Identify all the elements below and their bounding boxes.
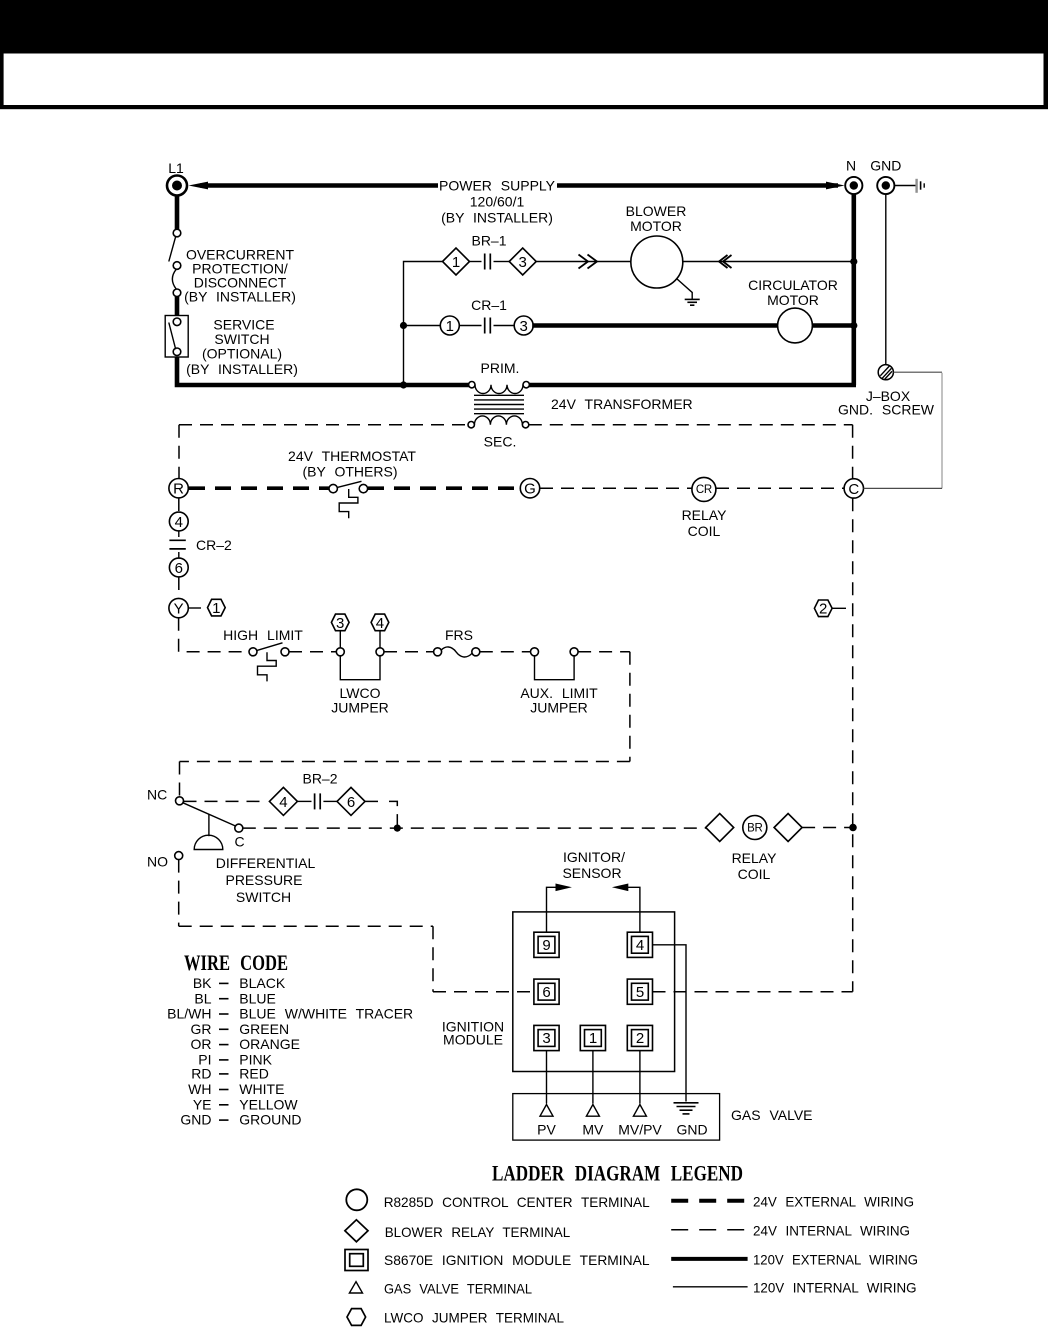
legend R8285D terminal symbol	[346, 1189, 650, 1210]
gas valve terminal GND earth	[674, 1103, 708, 1138]
transformer T1 primary	[469, 360, 530, 394]
svg-text:6: 6	[347, 794, 355, 811]
svg-text:24V TRANSFORMER: 24V TRANSFORMER	[551, 396, 693, 412]
svg-text:GR: GR	[191, 1021, 212, 1037]
LWCO jumper terminal 4	[371, 614, 389, 648]
terminal G	[520, 479, 539, 498]
svg-text:COIL: COIL	[738, 866, 771, 882]
ignition module box	[513, 912, 675, 1072]
svg-text:BLUE: BLUE	[239, 990, 276, 1006]
svg-text:GREEN: GREEN	[239, 1021, 289, 1037]
ignitor/sensor arrows	[547, 849, 640, 932]
wire BR coil to rail	[802, 827, 850, 829]
svg-text:GND. SCREW: GND. SCREW	[838, 402, 935, 418]
svg-text:BR–2: BR–2	[302, 771, 337, 787]
svg-text:6: 6	[175, 560, 183, 577]
svg-text:OR: OR	[191, 1036, 212, 1052]
svg-text:C: C	[234, 834, 244, 850]
svg-text:RELAY: RELAY	[682, 507, 728, 523]
wire N rail	[851, 194, 856, 385]
terminal R	[169, 479, 188, 498]
relay coil BR with terminals	[706, 814, 802, 883]
chassis ground at GND terminal	[894, 179, 924, 193]
svg-text:RED: RED	[239, 1066, 269, 1082]
wire service switch to transformer rung	[177, 357, 469, 385]
svg-text:(OPTIONAL): (OPTIONAL)	[202, 346, 282, 362]
svg-text:BR: BR	[747, 822, 762, 834]
svg-text:2: 2	[636, 1030, 644, 1047]
svg-text:4: 4	[279, 794, 287, 811]
terminal C	[844, 479, 863, 498]
svg-text:C: C	[848, 481, 859, 498]
svg-text:SENSOR: SENSOR	[562, 865, 621, 881]
svg-text:1: 1	[452, 254, 460, 271]
ignition module terminal 6	[534, 979, 559, 1004]
blower motor ground	[677, 279, 700, 306]
ignition module terminal 2	[627, 1025, 652, 1050]
terminal Y	[169, 598, 188, 617]
svg-text:AUX. LIMIT: AUX. LIMIT	[520, 685, 598, 701]
wire aux limit return loop to NC	[180, 652, 630, 797]
svg-text:9: 9	[542, 937, 550, 954]
differential pressure switch	[147, 787, 315, 906]
svg-text:IGNITOR/: IGNITOR/	[563, 849, 625, 865]
LWCO jumper terminal 3	[331, 614, 349, 648]
svg-text:3: 3	[542, 1030, 550, 1047]
wire left branch vertical	[404, 262, 443, 386]
svg-text:R: R	[173, 481, 184, 498]
svg-text:G: G	[524, 481, 536, 498]
svg-text:SEC.: SEC.	[484, 434, 517, 450]
legend S8670E terminal symbol	[345, 1250, 650, 1271]
svg-text:4: 4	[175, 514, 183, 531]
svg-text:24V THERMOSTAT: 24V THERMOSTAT	[288, 448, 416, 464]
label overcurrent protection	[184, 247, 296, 305]
svg-text:POWER SUPPLY: POWER SUPPLY	[439, 178, 556, 194]
terminal 4 (R8285D)	[169, 498, 188, 531]
wire G to CR coil	[540, 487, 692, 489]
svg-text:3: 3	[519, 254, 527, 271]
wire BR-1 to blower motor with chevron	[536, 255, 630, 269]
svg-text:BLACK: BLACK	[239, 975, 286, 991]
legend 120V internal wiring	[673, 1279, 917, 1295]
svg-text:GAS VALVE TERMINAL: GAS VALVE TERMINAL	[384, 1281, 532, 1297]
wire 24V secondary rung dashed	[179, 425, 853, 479]
svg-text:FRS: FRS	[445, 627, 473, 643]
svg-text:CIRCULATOR: CIRCULATOR	[748, 277, 838, 293]
svg-text:WH: WH	[188, 1081, 211, 1097]
svg-text:4: 4	[636, 937, 644, 954]
terminal N	[845, 158, 862, 195]
svg-text:BLOWER RELAY TERMINAL: BLOWER RELAY TERMINAL	[385, 1224, 571, 1240]
svg-text:BL/WH: BL/WH	[167, 1006, 211, 1022]
gas valve terminal PV	[537, 1105, 556, 1138]
transformer T1 secondary	[468, 416, 529, 450]
svg-text:MOTOR: MOTOR	[630, 218, 682, 234]
ignition module terminal 5	[627, 979, 652, 1004]
wire LWCO to FRS	[384, 651, 434, 653]
svg-text:COIL: COIL	[688, 523, 721, 539]
wire circulator motor to N rail	[812, 323, 853, 328]
overcurrent protection/disconnect switch	[169, 229, 181, 296]
svg-text:WIRE CODE: WIRE CODE	[184, 950, 288, 975]
wire terminal 2 to MV/PV	[639, 1051, 641, 1104]
legend 24V internal wiring	[671, 1222, 910, 1238]
svg-text:MV/PV: MV/PV	[618, 1122, 662, 1138]
svg-text:120V EXTERNAL WIRING: 120V EXTERNAL WIRING	[753, 1251, 918, 1267]
svg-text:GND: GND	[676, 1122, 707, 1138]
wire thermostat to G 24V external	[368, 486, 520, 490]
svg-text:1: 1	[446, 318, 454, 335]
ignition module terminal 1	[580, 1025, 605, 1050]
wire terminal 4 to gas valve ground	[653, 945, 687, 1102]
junction dots N rail	[850, 258, 857, 265]
svg-text:24V EXTERNAL WIRING: 24V EXTERNAL WIRING	[753, 1193, 914, 1209]
svg-text:S8670E IGNITION MODULE TERMINA: S8670E IGNITION MODULE TERMINAL	[384, 1252, 650, 1268]
svg-text:YELLOW: YELLOW	[239, 1096, 298, 1112]
LWCO jumper terminal 1	[188, 599, 225, 617]
svg-text:RD: RD	[191, 1066, 211, 1082]
svg-text:BLOWER: BLOWER	[626, 203, 687, 219]
svg-text:BL: BL	[194, 990, 211, 1006]
ignition module terminal 4	[627, 932, 652, 957]
blower relay contact BR-2	[269, 771, 365, 816]
wire R to thermostat 24V external	[189, 486, 329, 490]
24V thermostat switch	[288, 448, 416, 518]
svg-text:(BY INSTALLER): (BY INSTALLER)	[441, 210, 553, 226]
svg-text:4: 4	[376, 615, 384, 632]
wire primary rung right	[529, 383, 857, 388]
gas valve terminal MV	[582, 1105, 604, 1138]
svg-text:1: 1	[589, 1030, 597, 1047]
wire terminal 5 to rail	[653, 991, 853, 993]
J-box ground screw	[838, 194, 935, 417]
svg-text:BLUE W/WHITE TRACER: BLUE W/WHITE TRACER	[239, 1006, 413, 1022]
svg-text:GND: GND	[180, 1112, 211, 1128]
wire FRS to aux limit	[480, 651, 531, 653]
wire J-box screw to C terminal	[864, 372, 943, 488]
svg-text:3: 3	[520, 318, 528, 335]
svg-text:LWCO JUMPER TERMINAL: LWCO JUMPER TERMINAL	[384, 1310, 564, 1326]
svg-text:120V INTERNAL WIRING: 120V INTERNAL WIRING	[753, 1279, 917, 1295]
wire L1 drop	[175, 196, 180, 230]
svg-text:HIGH LIMIT: HIGH LIMIT	[223, 627, 303, 643]
svg-text:MOTOR: MOTOR	[767, 292, 819, 308]
header title box	[0, 54, 1048, 110]
legend blower relay terminal symbol	[345, 1220, 571, 1242]
label power supply	[439, 178, 556, 226]
svg-text:WHITE: WHITE	[239, 1081, 284, 1097]
svg-text:PRIM.: PRIM.	[481, 360, 520, 376]
svg-text:BR–1: BR–1	[471, 233, 506, 249]
svg-text:GAS VALVE: GAS VALVE	[731, 1107, 813, 1123]
svg-text:CR: CR	[696, 484, 712, 496]
wire Y down to high limit rung	[179, 618, 245, 652]
wire terminal 3 to PV	[546, 1051, 548, 1104]
circulator motor M2	[748, 277, 838, 343]
wire code table	[167, 975, 413, 1128]
terminal GND	[870, 158, 901, 195]
wire high limit to LWCO	[289, 651, 336, 653]
wire 6 to Y dashed	[178, 577, 180, 598]
svg-text:GND: GND	[870, 158, 901, 174]
aux limit jumper	[520, 648, 598, 716]
svg-text:CR–2: CR–2	[196, 537, 232, 553]
svg-text:N: N	[846, 158, 856, 174]
svg-text:NC: NC	[147, 787, 167, 803]
gas valve box	[513, 1094, 720, 1141]
wire blower motor to N rail with chevron	[683, 255, 854, 268]
svg-text:6: 6	[542, 984, 550, 1001]
svg-text:MODULE: MODULE	[443, 1032, 503, 1048]
wire C rung dashed	[243, 827, 706, 829]
svg-text:RELAY: RELAY	[732, 850, 778, 866]
svg-text:3: 3	[336, 615, 344, 632]
fuse FRS	[434, 627, 480, 657]
svg-text:MV: MV	[582, 1122, 604, 1138]
svg-text:R8285D CONTROL CENTER TERMINAL: R8285D CONTROL CENTER TERMINAL	[384, 1194, 650, 1210]
label ignition module	[442, 1019, 504, 1048]
svg-text:LADDER DIAGRAM LEGEND: LADDER DIAGRAM LEGEND	[492, 1161, 743, 1186]
svg-text:ORANGE: ORANGE	[239, 1036, 300, 1052]
relay contact CR-2	[169, 531, 232, 558]
svg-text:JUMPER: JUMPER	[331, 700, 389, 716]
svg-text:Y: Y	[174, 601, 184, 618]
wire NO loop to ignition module	[179, 860, 534, 992]
LWCO jumper	[331, 648, 389, 716]
hexagon terminal 2	[814, 600, 846, 618]
svg-text:YE: YE	[193, 1096, 212, 1112]
wire BR-2 to C rung	[365, 801, 401, 831]
wire CR-1 to circulator motor	[532, 323, 778, 328]
label service switch	[186, 317, 298, 378]
blower motor M1	[626, 203, 687, 288]
svg-text:PV: PV	[537, 1122, 556, 1138]
svg-text:PRESSURE: PRESSURE	[225, 872, 302, 888]
junction dot left branch top	[400, 322, 407, 329]
wire NC to BR-2	[184, 800, 266, 802]
circulator relay contact CR-1	[404, 297, 534, 335]
junction dot BR rail	[849, 824, 857, 832]
relay coil CR	[682, 477, 728, 539]
legend gas valve terminal symbol	[349, 1281, 532, 1297]
svg-text:(BY OTHERS): (BY OTHERS)	[303, 463, 398, 479]
ignition module terminal 9	[534, 932, 559, 957]
svg-text:2: 2	[819, 601, 827, 618]
svg-text:BK: BK	[193, 975, 212, 991]
svg-text:SWITCH: SWITCH	[236, 889, 291, 905]
wire terminal 1 to MV	[592, 1051, 594, 1104]
svg-text:(BY INSTALLER): (BY INSTALLER)	[184, 289, 296, 305]
svg-text:GROUND: GROUND	[239, 1112, 301, 1128]
svg-text:1: 1	[212, 600, 220, 617]
gas valve terminal MV/PV	[618, 1105, 662, 1138]
high limit switch	[223, 627, 303, 681]
wire C rail dashed down	[852, 498, 854, 992]
terminal 6 (R8285D)	[169, 558, 188, 577]
svg-text:DIFFERENTIAL: DIFFERENTIAL	[216, 855, 316, 871]
header black bar	[0, 0, 1048, 54]
svg-text:LWCO: LWCO	[340, 685, 381, 701]
svg-text:5: 5	[636, 984, 644, 1001]
wire CR coil to C	[716, 487, 844, 489]
svg-text:24V INTERNAL WIRING: 24V INTERNAL WIRING	[753, 1222, 910, 1238]
svg-text:CR–1: CR–1	[471, 297, 507, 313]
svg-text:120/60/1: 120/60/1	[470, 194, 525, 210]
service switch	[165, 316, 188, 358]
terminal L1	[167, 160, 187, 196]
blower relay contact BR-1	[443, 233, 537, 276]
svg-text:JUMPER: JUMPER	[530, 700, 588, 716]
ignition module terminal 3	[534, 1025, 559, 1050]
svg-text:NO: NO	[147, 854, 168, 870]
wire power supply 120V	[189, 182, 845, 190]
wire to service switch	[175, 297, 180, 316]
legend 120V external wiring	[671, 1251, 918, 1267]
transformer T1 core	[474, 395, 524, 413]
legend 24V external wiring	[671, 1193, 914, 1209]
svg-text:(BY INSTALLER): (BY INSTALLER)	[186, 361, 298, 377]
svg-text:L1: L1	[168, 160, 184, 176]
legend LWCO jumper terminal symbol	[347, 1309, 564, 1326]
